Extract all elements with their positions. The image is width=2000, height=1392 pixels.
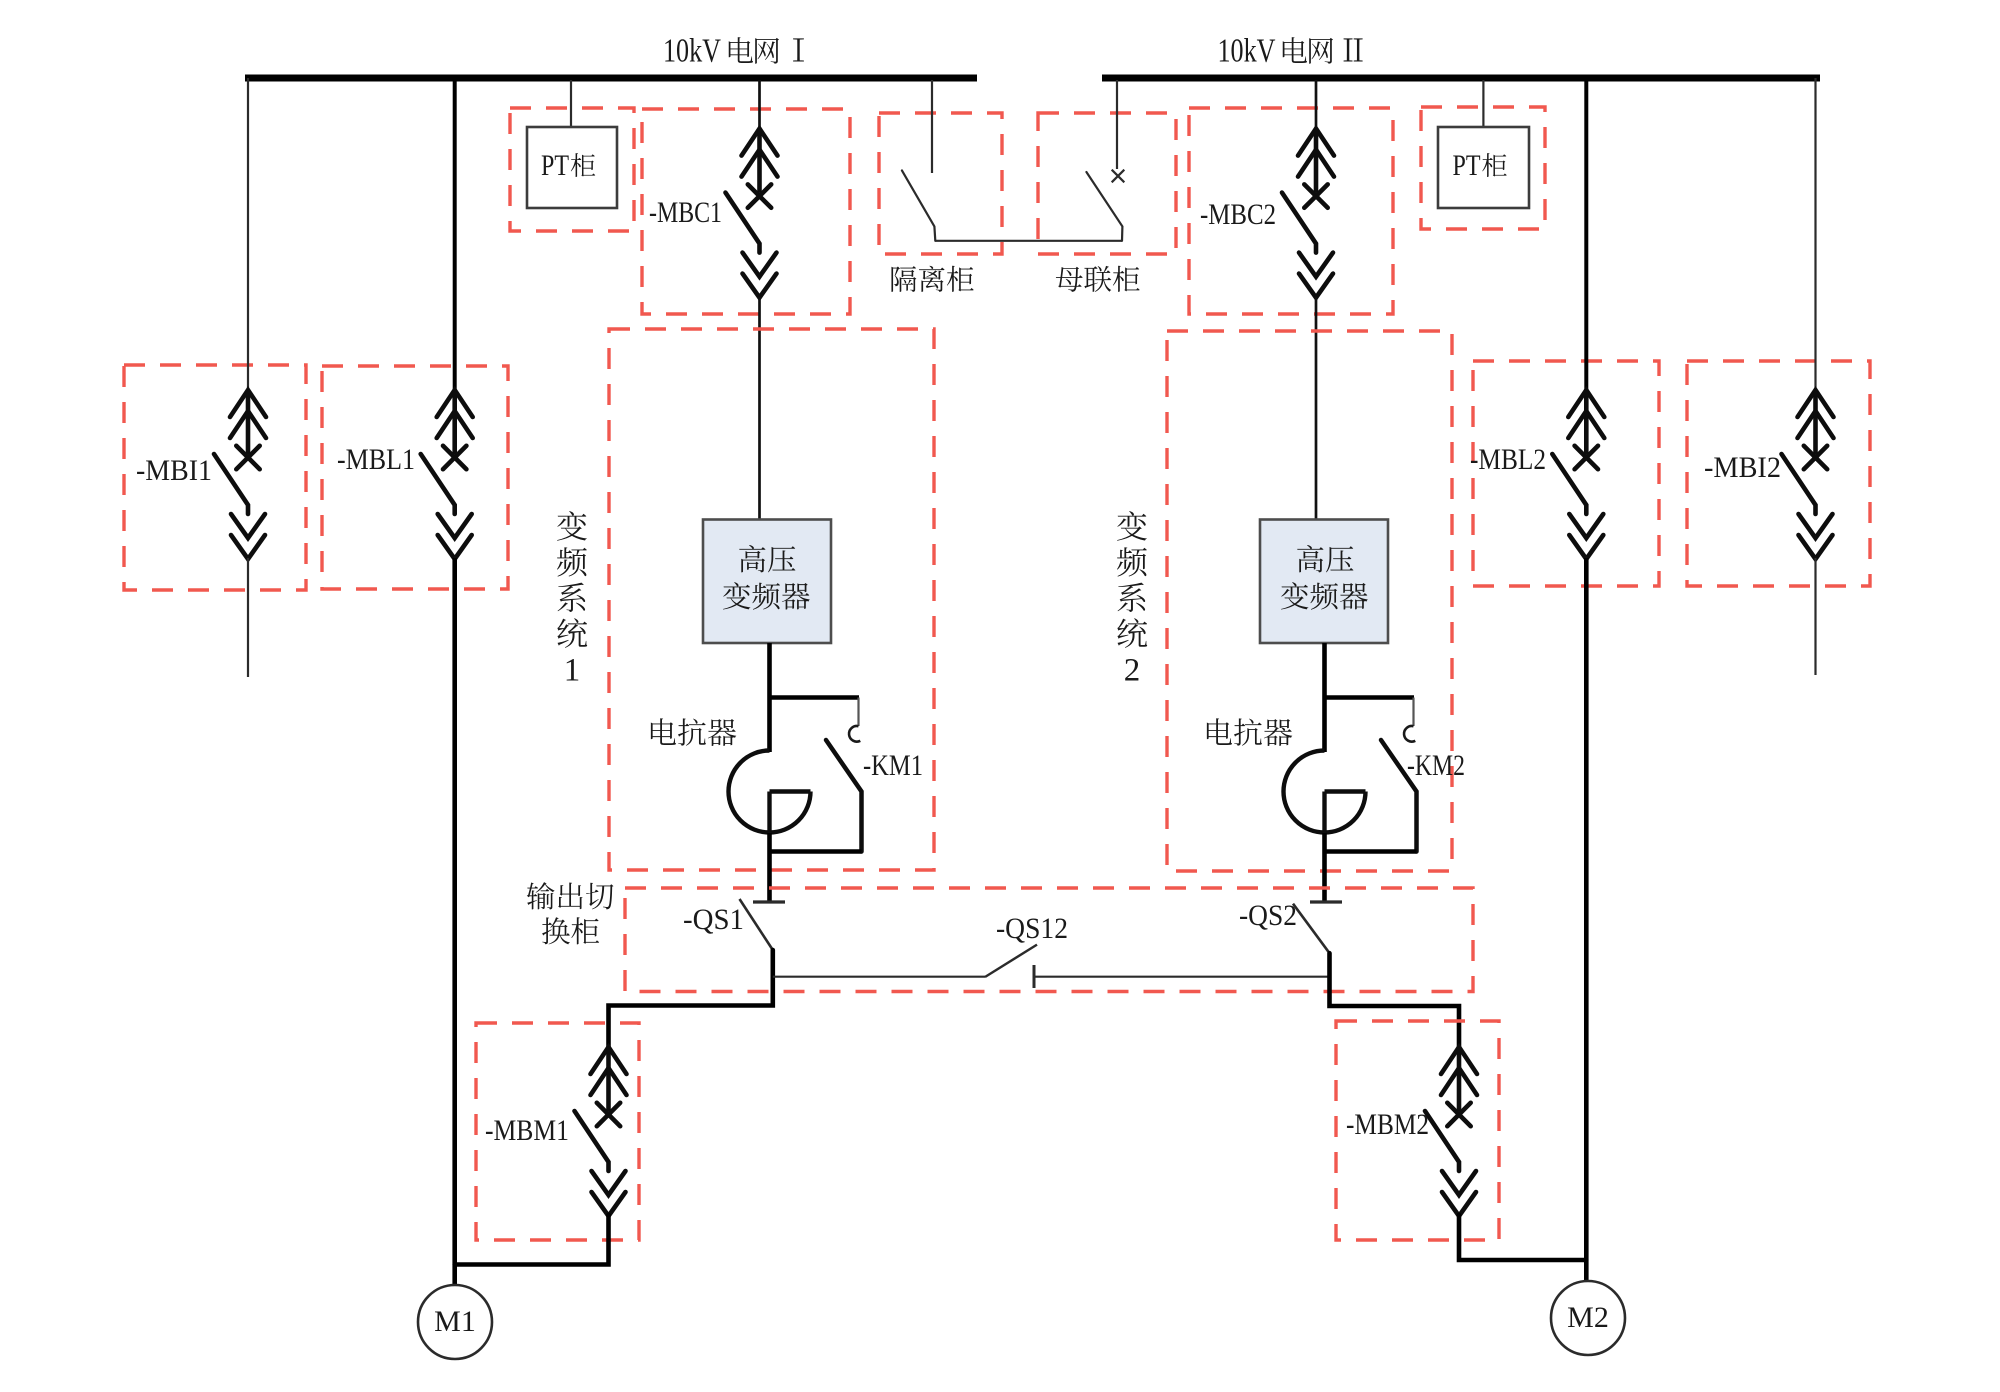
svg-text:-QS1: -QS1 bbox=[683, 903, 744, 936]
svg-text:10kV: 10kV bbox=[1218, 33, 1276, 70]
svg-text:-KM1: -KM1 bbox=[863, 749, 923, 782]
wire reactor 1 to -QS1 bbox=[767, 833, 772, 902]
wire -MBM1 to motor M1 line bbox=[455, 1215, 609, 1265]
svg-text:-MBI2: -MBI2 bbox=[1704, 451, 1781, 484]
wire bus II to bus-tie switch bbox=[1116, 80, 1118, 169]
wire stub below -MBI1 bbox=[247, 558, 249, 677]
isolation cabinet dashed enclosure bbox=[879, 113, 1002, 254]
label 高压变频器 2 bbox=[1297, 545, 1323, 572]
wire -KM1 to reactor output bbox=[770, 849, 862, 854]
breaker -MBC2 (drawout) bbox=[1282, 129, 1334, 298]
label 输出切换柜 (two lines) bbox=[527, 882, 555, 909]
breaker -MBC2 dashed enclosure bbox=[1189, 108, 1393, 314]
wire bus I end to -MBI1 bbox=[247, 78, 249, 391]
reactor 2 (电抗器) bbox=[1284, 751, 1366, 833]
contactor -KM1 arc bbox=[849, 726, 860, 742]
wire bus I to -MBC1 bbox=[758, 80, 761, 130]
svg-text:-QS2: -QS2 bbox=[1239, 899, 1297, 932]
disconnect -QS12 left wire bbox=[773, 976, 985, 978]
breaker -MBM1 (drawout) bbox=[575, 1047, 627, 1216]
disconnect -QS1 blade bbox=[740, 899, 773, 950]
label 母联柜 bbox=[1056, 267, 1083, 292]
svg-text:2: 2 bbox=[1124, 653, 1141, 689]
svg-text:10kV: 10kV bbox=[663, 33, 721, 70]
label 电抗器 2 bbox=[1207, 718, 1232, 745]
svg-text:-MBL1: -MBL1 bbox=[337, 443, 415, 476]
bus-tie switch x mark bbox=[1112, 170, 1125, 183]
disconnect -QS2 blade bbox=[1293, 904, 1330, 954]
breaker -MBC1 dashed enclosure bbox=[642, 109, 850, 314]
disconnect -QS12 fixed terminal bbox=[1033, 965, 1036, 988]
disconnect -QS1 fixed terminal bbox=[753, 900, 785, 903]
wire VFD 2 output bbox=[1322, 643, 1327, 752]
svg-text:PT: PT bbox=[541, 149, 569, 182]
motor M1 bbox=[418, 1285, 492, 1359]
wire -QS2 to -MBM2 bbox=[1330, 953, 1460, 1048]
HV VFD 1 box (高压变频器) bbox=[703, 520, 831, 644]
breaker -MBI2 (drawout) bbox=[1782, 390, 1834, 559]
wire -MBL1 to motor M1 bbox=[452, 558, 457, 1285]
svg-text:M1: M1 bbox=[434, 1305, 476, 1338]
breaker -MBM2 dashed enclosure bbox=[1336, 1021, 1499, 1240]
contactor -KM1 fixed lead bbox=[857, 698, 859, 727]
wire -MBC2 to VFD 2 bbox=[1315, 297, 1318, 521]
junction to contactor -KM1 bbox=[770, 695, 860, 700]
svg-text:-MBL2: -MBL2 bbox=[1470, 443, 1546, 476]
bus-tie switch blade bbox=[1086, 172, 1122, 241]
wire -MBC1 to VFD 1 bbox=[758, 297, 761, 520]
svg-text:-MBM2: -MBM2 bbox=[1346, 1108, 1429, 1141]
junction to contactor -KM2 bbox=[1325, 695, 1415, 700]
wire -QS12 to -QS2 bbox=[1034, 976, 1330, 978]
reactor 1 (电抗器) bbox=[728, 751, 810, 833]
breaker -MBM1 dashed enclosure bbox=[476, 1023, 639, 1240]
VFD system 2 dashed enclosure bbox=[1167, 331, 1452, 871]
wire -MBM2 to motor M2 line bbox=[1459, 1215, 1586, 1260]
breaker -MBL2 dashed enclosure bbox=[1473, 361, 1659, 586]
wire -KM2 to reactor output bbox=[1325, 849, 1417, 854]
bus-tie cabinet dashed enclosure bbox=[1038, 113, 1176, 254]
isolation switch blade bbox=[902, 170, 935, 240]
PT cabinet 2 box bbox=[1438, 127, 1529, 208]
breaker -MBI2 dashed enclosure bbox=[1687, 361, 1870, 586]
contactor -KM2 arc bbox=[1404, 726, 1415, 742]
wire stub below -MBI2 bbox=[1814, 558, 1816, 675]
bus I (10kV grid I) bbox=[245, 75, 977, 82]
svg-text:-KM2: -KM2 bbox=[1407, 749, 1465, 782]
svg-text:-QS12: -QS12 bbox=[996, 912, 1068, 945]
contactor -KM1 blade bbox=[826, 740, 862, 852]
wire bus II to -MBL2 bbox=[1584, 78, 1588, 391]
wire -MBL2 to motor M2 bbox=[1584, 558, 1589, 1281]
PT cabinet 2 dashed enclosure bbox=[1421, 107, 1545, 229]
wire bus I to isolation switch bbox=[931, 80, 933, 173]
svg-text:-MBI1: -MBI1 bbox=[136, 454, 212, 487]
disconnect -QS2 fixed terminal bbox=[1310, 900, 1342, 903]
PT cabinet 1 dashed enclosure bbox=[510, 108, 634, 231]
svg-text:-MBC2: -MBC2 bbox=[1200, 198, 1276, 231]
output switching cabinet dashed enclosure bbox=[625, 888, 1473, 992]
wire isolation to bus-tie bbox=[935, 240, 1122, 242]
breaker -MBI1 (drawout) bbox=[214, 390, 266, 559]
svg-text:1: 1 bbox=[564, 653, 581, 689]
wire reactor 2 to -QS2 bbox=[1322, 833, 1327, 902]
HV VFD 2 box (高压变频器) bbox=[1260, 520, 1388, 644]
label 变频系统2 (vertical) bbox=[1117, 511, 1147, 541]
motor M2 bbox=[1551, 1281, 1625, 1355]
label 隔离柜 bbox=[891, 266, 916, 292]
wire bus II to -MBC2 bbox=[1315, 80, 1318, 130]
wire bus II to PT cabinet 2 bbox=[1482, 80, 1484, 128]
breaker -MBL2 (drawout) bbox=[1552, 390, 1604, 559]
label 电抗器 1 bbox=[651, 718, 676, 745]
breaker -MBL1 (drawout) bbox=[421, 390, 473, 559]
PT cabinet 1 box bbox=[527, 127, 617, 208]
disconnect -QS12 blade bbox=[985, 945, 1037, 977]
breaker -MBM2 (drawout) bbox=[1425, 1047, 1477, 1216]
breaker -MBI1 dashed enclosure bbox=[124, 365, 306, 590]
svg-text:PT: PT bbox=[1453, 149, 1481, 182]
svg-text:-MBC1: -MBC1 bbox=[649, 196, 722, 229]
wire bus I to -MBL1 bbox=[453, 80, 457, 391]
wire bus II end to -MBI2 bbox=[1814, 78, 1816, 391]
svg-text:M2: M2 bbox=[1567, 1301, 1609, 1334]
label 高压变频器 1 bbox=[739, 545, 765, 572]
contactor -KM2 fixed lead bbox=[1412, 698, 1414, 727]
contactor -KM2 blade bbox=[1381, 740, 1417, 852]
wire bus I to PT cabinet 1 bbox=[570, 80, 572, 128]
breaker -MBC1 (drawout) bbox=[726, 129, 778, 298]
bus II (10kV grid II) bbox=[1102, 75, 1820, 82]
wire -QS1 to -MBM1 bbox=[609, 950, 773, 1048]
label 变频系统1 (vertical) bbox=[557, 511, 587, 541]
wire VFD 1 output bbox=[767, 643, 772, 752]
VFD system 1 dashed enclosure bbox=[609, 329, 934, 870]
breaker -MBL1 dashed enclosure bbox=[322, 366, 508, 589]
svg-text:-MBM1: -MBM1 bbox=[485, 1114, 569, 1147]
